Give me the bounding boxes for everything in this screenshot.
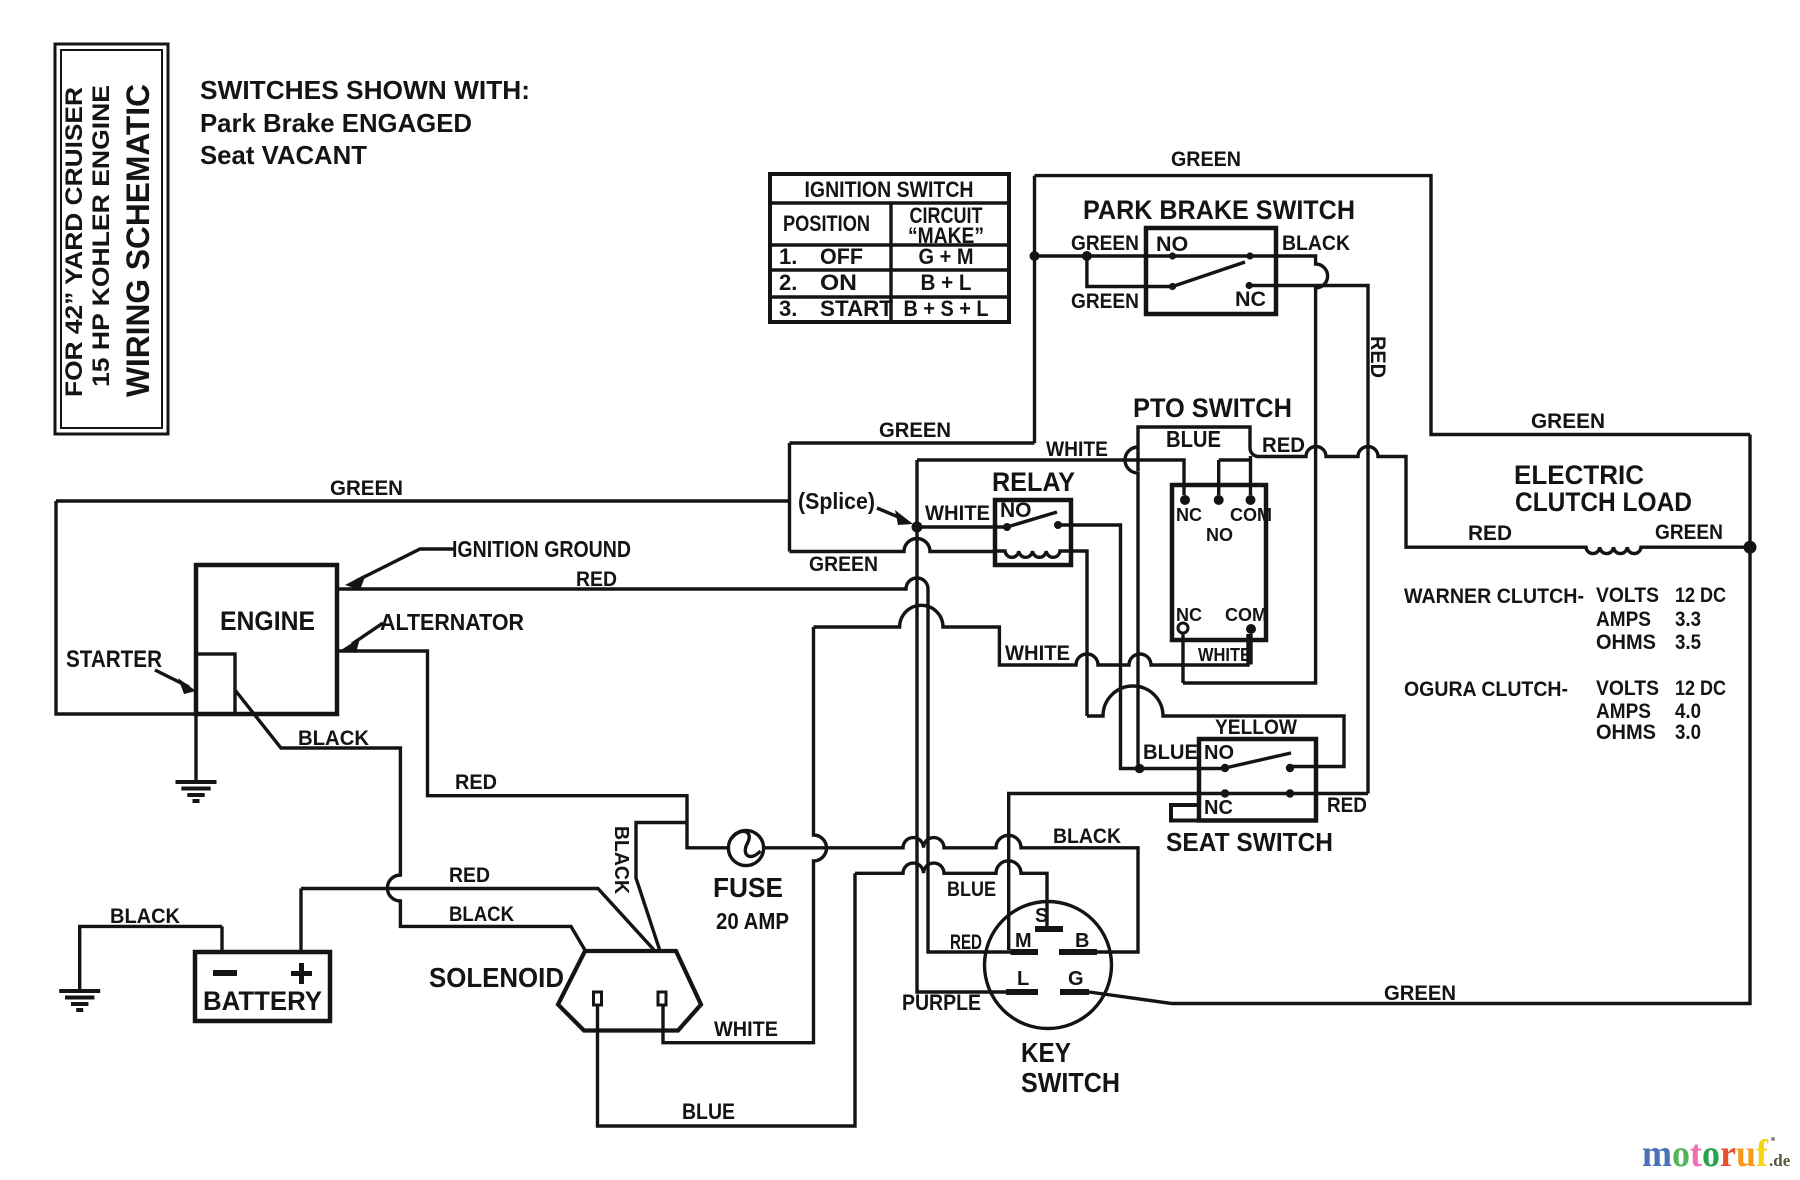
svg-text:ELECTRIC: ELECTRIC xyxy=(1514,460,1644,490)
svg-text:GREEN: GREEN xyxy=(1071,231,1139,255)
svg-text:RED: RED xyxy=(950,930,982,954)
svg-text:B: B xyxy=(1075,930,1089,952)
svg-text:SWITCH: SWITCH xyxy=(1021,1067,1120,1098)
svg-text:B + S + L: B + S + L xyxy=(904,296,989,321)
svg-text:GREEN: GREEN xyxy=(1071,289,1139,313)
svg-text:OHMS: OHMS xyxy=(1596,630,1656,654)
svg-text:NO: NO xyxy=(1206,525,1233,545)
svg-text:RED: RED xyxy=(1327,793,1367,817)
svg-text:motoruf: motoruf xyxy=(1642,1133,1769,1175)
svg-text:NC: NC xyxy=(1204,797,1233,819)
svg-text:15 HP KOHLER ENGINE: 15 HP KOHLER ENGINE xyxy=(88,85,115,387)
svg-text:3.5: 3.5 xyxy=(1675,630,1701,654)
svg-text:RED: RED xyxy=(449,863,490,887)
svg-text:GREEN: GREEN xyxy=(1655,520,1723,544)
svg-text:BLUE: BLUE xyxy=(947,877,996,901)
svg-text:WHITE: WHITE xyxy=(925,501,990,525)
svg-text:NC: NC xyxy=(1176,505,1202,525)
svg-text:IGNITION SWITCH: IGNITION SWITCH xyxy=(805,177,974,202)
svg-text:BLACK: BLACK xyxy=(610,826,632,895)
svg-text:FOR 42” YARD CRUISER: FOR 42” YARD CRUISER xyxy=(61,87,88,397)
svg-text:SWITCHES SHOWN WITH:: SWITCHES SHOWN WITH: xyxy=(200,75,530,105)
svg-text:G + M: G + M xyxy=(919,244,974,269)
svg-text:ALTERNATOR: ALTERNATOR xyxy=(380,609,524,635)
svg-text:FUSE: FUSE xyxy=(713,872,783,903)
svg-text:BLUE: BLUE xyxy=(1166,426,1221,452)
svg-text:WHITE: WHITE xyxy=(714,1017,778,1041)
svg-text:(Splice): (Splice) xyxy=(798,488,875,514)
svg-text:OHMS: OHMS xyxy=(1596,720,1656,744)
svg-text:2.: 2. xyxy=(779,270,797,295)
svg-text:IGNITION GROUND: IGNITION GROUND xyxy=(452,536,631,562)
svg-text:BLACK: BLACK xyxy=(110,904,180,928)
svg-text:L: L xyxy=(1017,968,1029,990)
svg-text:WARNER CLUTCH-: WARNER CLUTCH- xyxy=(1404,584,1584,608)
svg-text:SOLENOID: SOLENOID xyxy=(429,962,564,993)
svg-text:NO: NO xyxy=(1156,232,1188,256)
svg-text:G: G xyxy=(1068,968,1084,990)
svg-text:RED: RED xyxy=(455,770,497,794)
svg-text:BLUE: BLUE xyxy=(1143,740,1198,764)
svg-text:GREEN: GREEN xyxy=(809,552,878,576)
svg-text:GREEN: GREEN xyxy=(1531,409,1605,433)
svg-text:WHITE: WHITE xyxy=(1046,437,1108,461)
svg-text:RED: RED xyxy=(1262,433,1305,457)
svg-text:PTO SWITCH: PTO SWITCH xyxy=(1133,393,1292,423)
svg-text:12 DC: 12 DC xyxy=(1675,676,1726,700)
svg-text:NC: NC xyxy=(1235,287,1266,311)
svg-text:BLACK: BLACK xyxy=(1053,824,1121,848)
svg-text:ON: ON xyxy=(820,270,857,295)
svg-text:GREEN: GREEN xyxy=(330,476,403,500)
svg-text:POSITION: POSITION xyxy=(783,211,870,236)
svg-text:COM: COM xyxy=(1225,605,1267,625)
svg-text:3.3: 3.3 xyxy=(1675,607,1701,631)
svg-text:YELLOW: YELLOW xyxy=(1215,715,1298,739)
svg-text:PARK BRAKE SWITCH: PARK BRAKE SWITCH xyxy=(1083,195,1355,225)
svg-text:CLUTCH LOAD: CLUTCH LOAD xyxy=(1515,487,1692,517)
svg-text:BATTERY: BATTERY xyxy=(203,986,322,1016)
svg-text:SEAT SWITCH: SEAT SWITCH xyxy=(1166,827,1333,857)
svg-text:VOLTS: VOLTS xyxy=(1596,676,1659,700)
svg-text:GREEN: GREEN xyxy=(879,418,951,442)
svg-text:1.: 1. xyxy=(779,244,797,269)
svg-text:VOLTS: VOLTS xyxy=(1596,583,1659,607)
svg-text:GREEN: GREEN xyxy=(1384,981,1456,1005)
svg-text:BLACK: BLACK xyxy=(1282,231,1350,255)
svg-text:PURPLE: PURPLE xyxy=(902,990,981,1015)
svg-text:M: M xyxy=(1015,930,1032,952)
svg-text:.de: .de xyxy=(1769,1151,1791,1170)
svg-text:RED: RED xyxy=(1366,336,1390,378)
svg-text:S: S xyxy=(1035,905,1048,927)
svg-text:BLACK: BLACK xyxy=(449,902,514,926)
svg-text:NO: NO xyxy=(1204,742,1234,764)
svg-text:COM: COM xyxy=(1230,505,1272,525)
svg-text:12 DC: 12 DC xyxy=(1675,583,1726,607)
svg-text:RELAY: RELAY xyxy=(992,467,1075,497)
svg-text:B + L: B + L xyxy=(921,270,972,295)
svg-text:KEY: KEY xyxy=(1021,1037,1071,1068)
svg-text:WIRING SCHEMATIC: WIRING SCHEMATIC xyxy=(120,84,156,397)
svg-text:AMPS: AMPS xyxy=(1596,607,1651,631)
svg-text:GREEN: GREEN xyxy=(1171,147,1241,171)
svg-text:Seat VACANT: Seat VACANT xyxy=(200,140,367,170)
svg-text:BLUE: BLUE xyxy=(682,1099,735,1124)
svg-text:NO: NO xyxy=(1000,499,1032,522)
svg-text:STARTER: STARTER xyxy=(66,646,162,673)
svg-text:Park Brake ENGAGED: Park Brake ENGAGED xyxy=(200,108,472,138)
svg-text:3.0: 3.0 xyxy=(1675,720,1701,744)
svg-text:NC: NC xyxy=(1176,605,1202,625)
svg-text:ENGINE: ENGINE xyxy=(220,606,315,636)
svg-text:RED: RED xyxy=(1468,521,1512,545)
svg-text:3.: 3. xyxy=(779,296,797,321)
svg-text:START: START xyxy=(820,296,894,321)
svg-text:BLACK: BLACK xyxy=(298,726,369,750)
svg-text:WHITE: WHITE xyxy=(1005,641,1070,665)
svg-text:RED: RED xyxy=(576,567,617,591)
svg-text:20 AMP: 20 AMP xyxy=(716,908,789,934)
svg-text:OFF: OFF xyxy=(820,244,863,269)
svg-text:WHITE: WHITE xyxy=(1198,645,1251,665)
svg-text:OGURA CLUTCH-: OGURA CLUTCH- xyxy=(1404,677,1568,701)
